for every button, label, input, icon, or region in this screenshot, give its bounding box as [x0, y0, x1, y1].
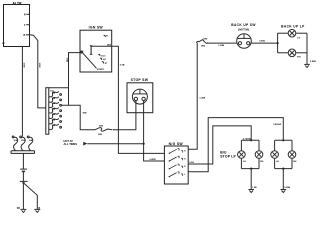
left pair bottom rail: [241, 168, 259, 170]
svg-text:1.25B: 1.25B: [199, 98, 205, 100]
svg-text:1.5B: 1.5B: [252, 187, 257, 189]
stop switch body circle: [132, 89, 147, 104]
left pair ground drop: [250, 169, 252, 190]
battery terminal symbol: [20, 169, 27, 171]
junction dot: [282, 168, 284, 170]
svg-text:R: R: [24, 13, 26, 16]
wire stop right lead down to gear switch row 2: [144, 101, 165, 161]
right pair right drop: [291, 140, 293, 150]
ignition wiper contact: [90, 46, 93, 55]
svg-text:0.5B: 0.5B: [120, 65, 125, 67]
backup lamps right rail: [306, 33, 308, 64]
left lamp pair top rail: [241, 139, 259, 141]
svg-text:0.85B: 0.85B: [284, 187, 290, 189]
backup switch terminal right: [247, 42, 250, 45]
alternator ALTR box: [3, 5, 30, 47]
junction dot: [277, 42, 279, 44]
svg-text:LH: LH: [243, 161, 246, 163]
ignition lever: [83, 53, 97, 68]
svg-text:0.85G: 0.85G: [259, 40, 265, 42]
terminal tick B: [23, 34, 29, 37]
svg-text:STOP LP: STOP LP: [220, 155, 236, 159]
fuse 4: [49, 107, 62, 113]
wire fuse 3 to stop switch feed: [62, 105, 96, 130]
svg-text:N/G SW: N/G SW: [169, 142, 184, 146]
left pair left drop: [240, 140, 242, 150]
splice connector: [20, 181, 28, 184]
backup lamp RH: [288, 49, 301, 59]
fuse 7: [49, 124, 62, 130]
fusible link bar: [11, 151, 35, 154]
fusible link 3: [27, 136, 33, 151]
stop switch terminal left: [134, 97, 137, 100]
right pair ground drop: [282, 169, 284, 190]
junction dot: [282, 139, 284, 141]
ground right: [34, 207, 40, 213]
backup switch body circle: [237, 34, 252, 49]
right pair bottom rail: [275, 168, 292, 170]
right pair right lamp to bottom rail: [291, 158, 293, 168]
ignition contact ACC: [98, 54, 106, 57]
svg-text:1.25B: 1.25B: [218, 45, 224, 47]
wire to ground left: [22, 183, 24, 210]
svg-text:LH: LH: [297, 37, 300, 39]
svg-text:ALTR: ALTR: [12, 1, 22, 5]
rear lamp RH (left pair): [255, 151, 264, 163]
svg-text:W/B: W/B: [201, 45, 205, 47]
svg-text:HOT AT: HOT AT: [64, 139, 74, 143]
svg-text:W/B: W/B: [99, 126, 103, 128]
left pair right lamp to bottom rail: [258, 158, 260, 168]
fuse 6: [49, 118, 62, 124]
junction dot: [250, 168, 252, 170]
stop switch box: [127, 83, 153, 113]
svg-text:BACK UP SW: BACK UP SW: [231, 23, 255, 27]
wire gear switch output B to right lamp pair: [188, 118, 283, 172]
fuse 3 feeds stop switch: [49, 102, 62, 108]
svg-text:B: B: [38, 207, 40, 210]
wire bar to battery terminal: [22, 153, 24, 169]
fuse 5: [49, 113, 62, 119]
left pair right drop: [258, 140, 260, 150]
fuse panel bus bar: [46, 88, 49, 135]
wire from ALTR bottom to fusible link 2: [21, 47, 23, 137]
svg-text:BACK UP LP: BACK UP LP: [281, 25, 305, 29]
svg-text:B/W: B/W: [107, 44, 111, 46]
wire to bottom lamp: [278, 52, 289, 54]
fuse 1: [49, 91, 62, 97]
backup switch chord: [237, 37, 251, 39]
stop switch terminal right: [142, 97, 145, 100]
backup lamps left rail: [277, 33, 279, 53]
svg-text:STOP SW: STOP SW: [131, 78, 149, 82]
svg-text:(M/TM): (M/TM): [238, 27, 249, 31]
svg-text:0.85GW: 0.85GW: [273, 124, 282, 126]
junction dot: [143, 143, 145, 145]
HOT feed arrow: [83, 142, 87, 146]
inline connector to backup switch: [197, 40, 208, 44]
wire from ALTR B terminal to fuse bus: [30, 35, 46, 108]
ignition switch box: [80, 30, 112, 72]
ignition contact ST: [102, 62, 108, 65]
wire bottom lamp to right rail: [296, 52, 307, 54]
rear lamp LH (right pair): [271, 151, 280, 163]
svg-text:LH: LH: [276, 161, 279, 163]
svg-text:ALL TIMES: ALL TIMES: [64, 142, 78, 146]
wire to top lamp: [278, 32, 289, 34]
wire bus top to riser: [49, 87, 69, 89]
fusible link 1: [12, 136, 18, 151]
rear lamp LH (left pair): [238, 151, 247, 163]
junction dot: [250, 139, 252, 141]
HOT feed wire: [87, 143, 143, 145]
wire connector to stop switch left lead: [113, 101, 136, 130]
backup switch plunger: [243, 34, 245, 39]
wire top lamp to right rail: [296, 32, 307, 34]
ignition contact IG: [100, 58, 107, 61]
ground backup lamps: [304, 64, 310, 67]
svg-text:RH: RH: [260, 161, 264, 163]
svg-text:RH: RH: [293, 161, 297, 163]
svg-text:FR: FR: [17, 207, 20, 210]
svg-text:W/B: W/B: [83, 113, 87, 115]
backup switch terminal left: [238, 42, 241, 45]
right pair left lamp to bottom rail: [274, 158, 276, 168]
ground left pair: [248, 187, 257, 193]
svg-text:ACC: ACC: [101, 54, 106, 57]
wire connector to backup switch: [208, 42, 237, 44]
wire gear switch row1 to backup feed vertical: [188, 43, 197, 150]
svg-text:B: B: [23, 34, 25, 37]
fusible link 2: [20, 136, 26, 151]
wire backup switch to lamps: [251, 42, 277, 44]
svg-text:0.85W: 0.85W: [149, 159, 156, 161]
right lamp pair top rail: [275, 139, 292, 141]
gear switch row 4: [169, 172, 187, 177]
svg-text:W/B: W/B: [98, 134, 102, 136]
svg-text:1.5B: 1.5B: [66, 58, 68, 63]
svg-text:IGN SW: IGN SW: [89, 25, 104, 29]
stop switch chord: [133, 93, 147, 95]
gear switch box: [164, 146, 188, 184]
svg-text:0.5G: 0.5G: [189, 162, 194, 164]
left pair left lamp to bottom rail: [240, 158, 242, 168]
wire gear switch output A to left lamp pair: [188, 126, 251, 164]
stop switch plunger: [139, 89, 141, 94]
gear switch row 3: [169, 164, 187, 169]
svg-text:0.85B: 0.85B: [310, 61, 316, 63]
wire IGN output down to gear switch row 1: [112, 46, 165, 153]
svg-text:B/W: B/W: [203, 38, 207, 40]
ground left: [17, 207, 27, 213]
wire diagonal to ground right: [24, 183, 37, 209]
riser wire to IGN SW pivot: [69, 53, 81, 105]
ignition contact B: [104, 35, 109, 37]
rear lamp RH (right pair): [288, 151, 297, 163]
ground right pair: [281, 187, 291, 193]
backup lamp LH: [288, 29, 300, 39]
wire battery to splice: [22, 171, 24, 181]
terminal tick F: [24, 24, 29, 27]
ignition pivot: [80, 51, 83, 54]
inline connector (hooks): [95, 128, 112, 132]
gear switch row 2: [169, 156, 187, 161]
svg-text:START: START: [97, 68, 105, 71]
gear switch row 1: [169, 149, 187, 154]
ignition output wire: [91, 45, 112, 47]
terminal tick R: [24, 13, 30, 16]
right pair left drop: [274, 140, 276, 150]
fuse 2: [49, 97, 62, 103]
svg-text:RH: RH: [297, 57, 301, 59]
